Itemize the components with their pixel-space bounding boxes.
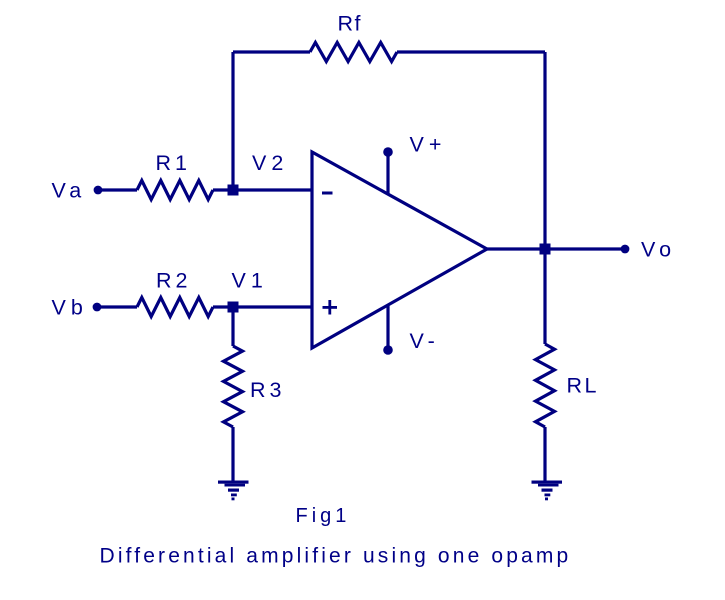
wire top feedback horizontal left segment: [233, 50, 310, 53]
svg-text:Differential amplifier using o: Differential amplifier using one opamp: [100, 545, 572, 568]
node Vb terminal: [93, 303, 102, 312]
op-amp plus input sign horizontal: [323, 306, 338, 309]
ground (right, RL): [532, 481, 563, 501]
wire feedback right vertical leg to output node: [543, 52, 546, 249]
svg-text:Fig1: Fig1: [296, 505, 351, 527]
wire top feedback horizontal right segment: [397, 50, 545, 53]
wire R3 to ground: [231, 427, 234, 481]
wire output node down to RL: [543, 249, 546, 344]
op-amp plus input sign vertical: [328, 300, 331, 315]
wire Vb to R2: [97, 305, 137, 308]
wire R2 to non-inverting input: [213, 305, 311, 308]
svg-text:Vb: Vb: [52, 296, 88, 320]
junction output node: [540, 244, 551, 255]
wire R1 to inverting input: [213, 188, 311, 191]
svg-text:V-: V-: [410, 329, 440, 353]
svg-text:V1: V1: [232, 269, 268, 293]
node Va terminal: [94, 186, 103, 195]
svg-text:R3: R3: [250, 378, 285, 402]
wire feedback left vertical leg: [231, 52, 234, 190]
op-amp minus input sign: [322, 192, 333, 195]
node V- terminal: [383, 345, 393, 355]
resistor R2: [137, 298, 213, 317]
junction node V1: [228, 302, 239, 313]
svg-text:Vo: Vo: [641, 238, 676, 262]
wire V+ stub: [386, 152, 389, 194]
resistor Rf: [310, 43, 397, 62]
svg-text:Va: Va: [52, 179, 87, 203]
svg-text:V+: V+: [410, 133, 447, 157]
op-amp U1: [312, 152, 487, 348]
svg-text:RL: RL: [567, 374, 599, 398]
resistor R3: [224, 346, 243, 427]
svg-text:R1: R1: [156, 151, 191, 175]
svg-text:R2: R2: [156, 269, 191, 293]
wire node V1 down to R3: [231, 307, 234, 346]
wire output to Vo: [487, 247, 625, 250]
ground (left, R3): [218, 481, 249, 501]
resistor R1: [137, 181, 213, 200]
resistor RL: [536, 344, 555, 427]
svg-text:V2: V2: [252, 151, 288, 175]
junction node V2: [228, 185, 239, 196]
wire RL to ground: [543, 427, 546, 481]
node Vo terminal: [621, 245, 630, 254]
wire V- stub: [386, 306, 389, 350]
svg-text:Rf: Rf: [338, 12, 363, 36]
wire Va to R1: [98, 188, 137, 191]
node V+ terminal: [383, 147, 393, 157]
